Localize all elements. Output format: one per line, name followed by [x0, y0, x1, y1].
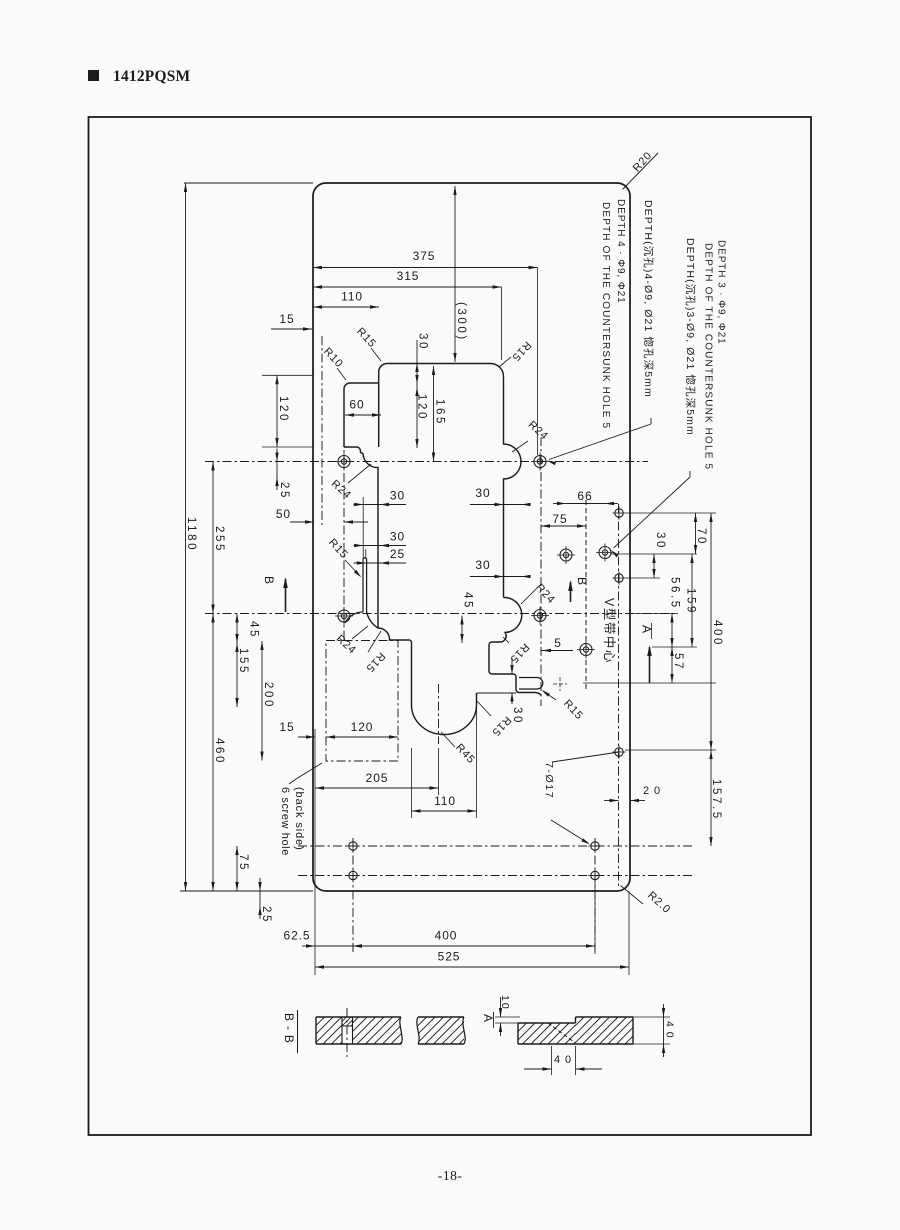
svg-text:B - B: B - B — [282, 1013, 296, 1044]
svg-text:525: 525 — [438, 950, 461, 964]
svg-text:25: 25 — [278, 482, 290, 500]
svg-text:460: 460 — [213, 738, 225, 765]
svg-text:60: 60 — [349, 398, 364, 412]
svg-text:1412PQSM: 1412PQSM — [113, 68, 191, 85]
svg-text:110: 110 — [434, 794, 456, 808]
svg-text:7-Ø17: 7-Ø17 — [543, 762, 555, 799]
svg-text:5: 5 — [554, 636, 562, 650]
svg-text:30: 30 — [416, 333, 428, 351]
svg-text:157.5: 157.5 — [710, 779, 722, 821]
svg-text:B: B — [575, 577, 589, 585]
svg-text:1180: 1180 — [185, 517, 197, 552]
svg-text:25: 25 — [390, 547, 405, 561]
svg-text:315: 315 — [397, 269, 420, 283]
svg-text:DEPTH 3 · Φ9, Φ21: DEPTH 3 · Φ9, Φ21 — [715, 240, 726, 345]
svg-text:400: 400 — [711, 620, 723, 647]
svg-text:4 0: 4 0 — [664, 1021, 676, 1039]
svg-text:30: 30 — [390, 530, 405, 544]
svg-text:66: 66 — [577, 489, 592, 503]
svg-text:25: 25 — [260, 906, 272, 924]
svg-text:75: 75 — [552, 512, 567, 526]
svg-text:57: 57 — [672, 653, 684, 671]
svg-text:(back side): (back side) — [293, 787, 305, 851]
svg-text:DEPTH OF THE COUNTERSUNK HOLE: DEPTH OF THE COUNTERSUNK HOLE 5 — [600, 202, 611, 429]
svg-text:30: 30 — [475, 558, 490, 572]
svg-text:DEPTH(沉孔)3-Ø9, Ø21 惚孔深5mm: DEPTH(沉孔)3-Ø9, Ø21 惚孔深5mm — [684, 238, 697, 436]
svg-text:DEPTH(沉孔)4-Ø9, Ø21 惚孔深5mm: DEPTH(沉孔)4-Ø9, Ø21 惚孔深5mm — [642, 200, 655, 398]
svg-text:30: 30 — [654, 532, 666, 550]
svg-text:B: B — [262, 576, 276, 584]
svg-text:V型带中心: V型带中心 — [602, 598, 617, 664]
svg-text:DEPTH OF THE COUNTERSUNK HOLE: DEPTH OF THE COUNTERSUNK HOLE 5 — [702, 243, 713, 470]
svg-text:110: 110 — [341, 290, 363, 304]
svg-text:70: 70 — [695, 528, 707, 546]
svg-text:159: 159 — [684, 588, 696, 615]
svg-text:45: 45 — [461, 592, 473, 610]
svg-text:120: 120 — [415, 394, 427, 421]
svg-text:15: 15 — [279, 720, 294, 734]
svg-text:375: 375 — [413, 249, 436, 263]
svg-text:205: 205 — [366, 771, 389, 785]
svg-text:15: 15 — [279, 312, 294, 326]
svg-text:56.5: 56.5 — [668, 577, 680, 610]
svg-text:30: 30 — [475, 486, 490, 500]
svg-text:400: 400 — [435, 929, 458, 943]
svg-text:DEPTH 4 · Φ9, Φ21: DEPTH 4 · Φ9, Φ21 — [615, 199, 626, 304]
svg-text:165: 165 — [433, 399, 445, 426]
svg-text:255: 255 — [213, 526, 225, 553]
svg-text:120: 120 — [277, 396, 289, 423]
svg-text:6 screw hole: 6 screw hole — [279, 787, 291, 856]
svg-text:75: 75 — [237, 854, 249, 872]
svg-text:A: A — [481, 1014, 495, 1022]
svg-text:62.5: 62.5 — [284, 929, 311, 943]
svg-text:-18-: -18- — [438, 1169, 463, 1184]
svg-text:45: 45 — [247, 621, 259, 639]
svg-text:155: 155 — [237, 648, 249, 675]
svg-text:(300): (300) — [455, 302, 467, 342]
svg-text:30: 30 — [390, 489, 405, 503]
svg-text:200: 200 — [262, 682, 274, 709]
svg-text:4 0: 4 0 — [554, 1054, 572, 1066]
svg-text:10: 10 — [499, 995, 511, 1011]
svg-text:120: 120 — [351, 720, 374, 734]
svg-text:50: 50 — [276, 507, 291, 521]
svg-text:2 0: 2 0 — [643, 785, 661, 797]
